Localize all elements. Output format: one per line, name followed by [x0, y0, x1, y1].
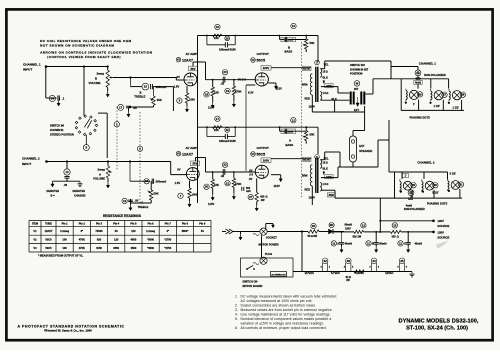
- capacitor C10 500mmf bass: [291, 23, 296, 28]
- svg-text:B: B: [95, 77, 97, 81]
- svg-text:120V: 120V: [437, 219, 444, 223]
- svg-text:470K: 470K: [79, 237, 85, 241]
- capacitor C12 .05 treble: [122, 198, 127, 203]
- svg-text:Pin 2: Pin 2: [79, 223, 86, 226]
- capacitor C25 4mfd non-polarized ch2: [408, 190, 414, 196]
- svg-text:2-5: 2-5: [249, 173, 253, 177]
- svg-text:55V: 55V: [193, 162, 198, 166]
- resistor R13 330 ohm: [392, 223, 397, 228]
- svg-text:5.: 5.: [235, 317, 238, 321]
- svg-text:BASS: BASS: [286, 143, 294, 147]
- svg-text:PHASING DOTS: PHASING DOTS: [427, 202, 448, 206]
- resistor R20 15K screen ch2: [204, 184, 209, 189]
- svg-text:6.: 6.: [235, 326, 238, 330]
- svg-text:470K: 470K: [235, 90, 241, 94]
- svg-text:*2750: *2750: [164, 237, 171, 241]
- svg-text:.02: .02: [221, 174, 225, 178]
- wire T2 secondary yel: [321, 159, 325, 161]
- wire ch2 rail verticals: [377, 140, 379, 167]
- wire ch1 feedback bus: [198, 35, 319, 37]
- svg-text:EXT: EXT: [354, 108, 359, 112]
- svg-text:*3600: *3600: [147, 237, 154, 241]
- resistor R3 1000 ohm cathode: [177, 98, 182, 103]
- svg-text:100: 100: [62, 246, 67, 250]
- resistor R19 470K grid: [233, 79, 235, 81]
- node channel2 input jack: [45, 160, 48, 163]
- svg-text:All controls at minimum, prop: All controls at minimum, proper output l…: [241, 326, 327, 330]
- svg-text:100: 100: [62, 237, 67, 241]
- svg-text:OUTPUT: OUTPUT: [257, 146, 270, 150]
- wire V1A plate up: [192, 62, 194, 66]
- svg-text:SHOWN IN INT: SHOWN IN INT: [350, 67, 369, 71]
- capacitor C17 .05: [118, 104, 124, 110]
- svg-text:1000: 1000: [189, 98, 195, 102]
- wire switch ext bottom: [334, 100, 336, 112]
- svg-text:A: A: [141, 201, 143, 205]
- wire mains bus: [241, 231, 260, 233]
- svg-text:3W: 3W: [313, 235, 317, 238]
- wire 50C5 ch2 plate to T2: [271, 158, 311, 160]
- svg-text:12AX7: 12AX7: [182, 152, 193, 156]
- wire screen b+: [245, 85, 247, 171]
- svg-text:Line voltage maintained at 117: Line voltage maintained at 117 volts for…: [241, 313, 331, 317]
- svg-text:TUBE: TUBE: [45, 223, 52, 226]
- svg-text:330: 330: [392, 235, 397, 238]
- svg-text:ST-100, SX-24 (Ch. 100): ST-100, SX-24 (Ch. 100): [406, 326, 468, 332]
- svg-text:1.5V: 1.5V: [174, 85, 180, 89]
- svg-text:15: 15: [144, 85, 148, 89]
- potentiometer R6 50K A TREBLE: [150, 181, 152, 190]
- switch S3 on-off: [247, 266, 253, 270]
- speaker SP1 1 inch: [417, 92, 422, 97]
- node channel1 input jack: [45, 65, 48, 68]
- svg-text:V2: V2: [251, 58, 255, 62]
- jack J1 EXT SPEAKER: [350, 136, 357, 162]
- svg-text:CHANNEL 2: CHANNEL 2: [22, 157, 40, 161]
- connector interconnect plug left: [229, 229, 233, 234]
- svg-text:CHANNEL 1: CHANNEL 1: [23, 63, 41, 67]
- svg-text:SOURCE: SOURCE: [437, 224, 449, 228]
- svg-text:19: 19: [226, 89, 230, 93]
- svg-text:PLUG: PLUG: [265, 252, 272, 256]
- svg-text:50C5: 50C5: [45, 246, 52, 250]
- wire T1 secondary yel: [321, 68, 325, 70]
- capacitor C15b 180mmf hum: [225, 36, 230, 41]
- svg-text:115V: 115V: [208, 202, 215, 206]
- svg-text:2W: 2W: [261, 199, 265, 202]
- socket motor power: [260, 228, 267, 235]
- wire ext speaker top: [352, 131, 354, 137]
- svg-text:80mfd: 80mfd: [379, 242, 387, 245]
- speaker SP5 3-1/2 inch: [433, 183, 438, 188]
- speaker SP2 1-1/2 inch: [442, 92, 447, 97]
- svg-text:V1: V1: [177, 152, 181, 156]
- capacitor C22 .02 coupling ch2: [222, 162, 227, 167]
- svg-text:NOT SHOWN ON SCHEMATIC DIA: NOT SHOWN ON SCHEMATIC DIAGRAM: [40, 44, 114, 48]
- svg-text:4500: 4500: [131, 237, 137, 241]
- svg-text:0V: 0V: [177, 168, 181, 172]
- resistor R17 22K feedback ch2: [215, 116, 220, 121]
- svg-text:SWITCH ON: SWITCH ON: [243, 279, 258, 283]
- wire ch2 speaker rail top: [389, 171, 395, 173]
- svg-text:BLUE: BLUE: [303, 158, 310, 161]
- svg-text:50C5: 50C5: [45, 237, 52, 241]
- svg-text:55V: 55V: [191, 67, 196, 71]
- svg-text:13: 13: [65, 170, 69, 174]
- svg-text:15K: 15K: [214, 183, 219, 187]
- resistor R7 1000 ohm cathode ch2: [178, 193, 183, 198]
- svg-text:1.2meg: 1.2meg: [146, 229, 155, 233]
- wire V1B plate to 50C5 grid: [206, 171, 256, 173]
- potentiometer R8 50K A BASS: [305, 131, 308, 141]
- svg-text:180mmf N150: 180mmf N150: [219, 139, 236, 143]
- svg-text:22K: 22K: [214, 128, 219, 132]
- svg-text:.05: .05: [133, 106, 137, 110]
- svg-text:SHOWN IN: SHOWN IN: [50, 128, 63, 132]
- svg-text:AF AMP: AF AMP: [186, 52, 197, 56]
- svg-text:V3: V3: [251, 152, 255, 156]
- wire T2 primary red b+: [311, 186, 313, 205]
- svg-text:11: 11: [367, 241, 370, 245]
- svg-text:DENOTES: DENOTES: [73, 189, 86, 193]
- svg-text:13: 13: [393, 223, 397, 227]
- wire switch to speakers: [366, 93, 374, 95]
- svg-text:50C5: 50C5: [257, 59, 266, 63]
- svg-text:0V: 0V: [249, 168, 252, 172]
- svg-text:TREBLE: TREBLE: [138, 205, 149, 209]
- svg-text:AC INTERLOCK: AC INTERLOCK: [271, 273, 286, 276]
- svg-text:POSITION: POSITION: [350, 72, 363, 76]
- svg-text:115V: 115V: [274, 184, 281, 188]
- label ac interlock: [271, 272, 287, 277]
- tube heater V2 pins: [322, 258, 328, 264]
- svg-text:120: 120: [114, 237, 119, 241]
- svg-text:DYNAMIC MODELS DS32-100,: DYNAMIC MODELS DS32-100,: [399, 319, 479, 325]
- legend denotes B-: [53, 180, 81, 182]
- svg-text:0*: 0*: [167, 229, 169, 233]
- ganged dashed line volume controls: [116, 107, 118, 170]
- svg-text:2meg: 2meg: [97, 72, 105, 76]
- wire socket hook: [265, 224, 267, 229]
- svg-text:VOLUME: VOLUME: [89, 81, 101, 85]
- svg-text:150V: 150V: [345, 227, 351, 230]
- svg-text:1000: 1000: [192, 192, 198, 196]
- svg-text:*2750: *2750: [164, 246, 171, 250]
- svg-text:32: 32: [323, 259, 327, 263]
- svg-text:20: 20: [205, 185, 209, 189]
- wire ch1 input drop: [45, 67, 47, 99]
- wire V1A plate to 50C5 grid: [206, 79, 256, 81]
- svg-text:0V: 0V: [177, 75, 181, 79]
- svg-text:180mmf N150: 180mmf N150: [219, 47, 236, 51]
- svg-text:34: 34: [372, 259, 376, 263]
- svg-text:DC voltage measurements taken: DC voltage measurements taken with vacuu…: [241, 294, 338, 298]
- svg-text:Ω: Ω: [326, 162, 328, 165]
- svg-text:3800*: 3800*: [182, 229, 189, 233]
- svg-text:620: 620: [97, 237, 102, 241]
- svg-text:4500: 4500: [131, 246, 137, 250]
- svg-text:Ω: Ω: [349, 277, 351, 279]
- svg-text:.02: .02: [221, 82, 225, 86]
- svg-text:DC COIL RESISTANCE VALUES: DC COIL RESISTANCE VALUES UNDER ONE OHM: [40, 39, 131, 43]
- svg-text:105V: 105V: [437, 230, 444, 234]
- svg-text:Ω: Ω: [326, 183, 328, 186]
- svg-text:TREBLE: TREBLE: [134, 95, 145, 99]
- switch S1 int-ext: [354, 81, 360, 87]
- tube heater V3 pins: [371, 258, 377, 264]
- svg-text:16: 16: [216, 25, 220, 29]
- svg-text:6.3V: 6.3V: [248, 91, 254, 95]
- svg-text:11: 11: [292, 118, 295, 122]
- capacitor C11 500mmf bass ch2: [291, 118, 296, 123]
- transformer T2 output ch2: [315, 155, 320, 160]
- svg-text:50K: 50K: [154, 192, 159, 196]
- svg-text:12: 12: [362, 223, 366, 227]
- wire 50C5 plate to T1: [271, 67, 311, 69]
- svg-text:12: 12: [123, 199, 127, 203]
- svg-text:©Howard W. Sams & Co., Inc. 19: ©Howard W. Sams & Co., Inc. 1960: [44, 329, 92, 333]
- svg-text:Ω: Ω: [326, 71, 328, 74]
- wire speaker return to b+: [379, 198, 381, 232]
- svg-text:A: A: [289, 139, 291, 143]
- svg-text:Pin 6: Pin 6: [148, 223, 155, 226]
- svg-text:Socket connections are shown a: Socket connections are shown as bottom v…: [241, 303, 317, 307]
- svg-text:Pin 7: Pin 7: [165, 223, 172, 226]
- svg-text:18: 18: [205, 92, 209, 96]
- svg-text:RESISTANCE READINGS: RESISTANCE READINGS: [103, 214, 141, 218]
- svg-text:70000: 70000: [95, 229, 103, 233]
- svg-text:2meg: 2meg: [98, 167, 106, 171]
- svg-text:12AX7: 12AX7: [182, 58, 193, 62]
- svg-text:V3: V3: [33, 246, 37, 250]
- svg-text:W: W: [356, 81, 359, 85]
- resistor R30 55 ohm 3W: [311, 223, 316, 228]
- svg-text:Ω: Ω: [266, 196, 268, 199]
- wire ch2 feedback bus: [198, 126, 319, 128]
- svg-text:600: 600: [260, 196, 265, 199]
- tube heater V1 pins: [346, 258, 352, 264]
- svg-text:* MEASURED FROM OUTPUT O: * MEASURED FROM OUTPUT OF V1.: [38, 253, 84, 257]
- svg-text:50K: 50K: [310, 133, 315, 137]
- svg-text:4.: 4.: [235, 313, 238, 317]
- potentiometer R2 50K B TREBLE: [153, 87, 155, 96]
- wire ch2 input rail: [47, 161, 171, 163]
- svg-text:STEREO POSITION: STEREO POSITION: [50, 133, 74, 137]
- svg-text:100V: 100V: [263, 159, 270, 163]
- svg-text:INPUT: INPUT: [23, 68, 32, 72]
- diode M1 rectifier: [329, 223, 334, 228]
- svg-text:14: 14: [51, 97, 55, 101]
- svg-text:V1: V1: [177, 58, 181, 62]
- wire T1 secondary grn to switch: [321, 86, 338, 88]
- wire ch2 speaker bottoms: [335, 197, 395, 199]
- wire ch1 speaker bottoms: [401, 109, 464, 111]
- svg-text:Nominal tolerance of component: Nominal tolerance of component values ma…: [241, 317, 332, 321]
- capacitor C15 200mmf: [142, 83, 149, 90]
- svg-text:.05: .05: [64, 183, 68, 187]
- svg-text:22K: 22K: [214, 36, 219, 40]
- svg-text:1 1/2': 1 1/2': [453, 106, 460, 110]
- svg-text:20: 20: [223, 70, 227, 74]
- svg-text:Pin 5: Pin 5: [130, 223, 137, 226]
- svg-text:DENOTES: DENOTES: [47, 189, 60, 193]
- svg-text:Measured values are from socke: Measured values are from socket pin to c…: [241, 308, 333, 312]
- svg-text:820 2W: 820 2W: [353, 235, 362, 238]
- legend denotes chassis: [79, 181, 81, 184]
- svg-text:1 1/2': 1 1/2': [434, 104, 441, 108]
- svg-text:VOLUME: VOLUME: [93, 177, 105, 181]
- svg-text:Ω: Ω: [397, 235, 399, 238]
- svg-text:470K: 470K: [79, 246, 85, 250]
- svg-text:MOTOR BOARD: MOTOR BOARD: [243, 284, 263, 288]
- wire socket to plug: [261, 235, 263, 257]
- svg-text:BLK: BLK: [323, 76, 328, 80]
- svg-text:33: 33: [347, 259, 351, 263]
- ganged dashed line treble controls: [139, 112, 141, 205]
- svg-text:AC voltages measured at 1000 o: AC voltages measured at 1000 ohms per vo…: [241, 299, 313, 303]
- wire heater string: [293, 271, 412, 273]
- svg-text:0V 2-5: 0V 2-5: [238, 78, 246, 82]
- svg-text:1.: 1.: [235, 294, 238, 298]
- wire b+ rails: [380, 220, 433, 222]
- svg-text:50K: 50K: [157, 98, 162, 102]
- svg-text:RED: RED: [329, 194, 334, 197]
- svg-text:15K: 15K: [214, 91, 219, 95]
- svg-text:NON-POLARIZED: NON-POLARIZED: [404, 208, 425, 211]
- wire ch1 speaker rail top: [400, 79, 402, 111]
- capacitor C14 .1: [46, 97, 57, 99]
- svg-text:Ω: Ω: [326, 92, 328, 95]
- svg-text:SWITCH NO: SWITCH NO: [350, 63, 365, 67]
- svg-text:B =: B =: [51, 193, 56, 197]
- wire 50C5 ch2 screen: [271, 174, 281, 176]
- svg-text:4mfd: 4mfd: [406, 203, 413, 207]
- capacitor C10b 200mmf: [144, 179, 149, 184]
- b- return arrow: [233, 231, 241, 233]
- rotary switch S2 stereo-mono: [75, 115, 98, 136]
- svg-text:0*: 0*: [81, 229, 83, 233]
- svg-text:RED: RED: [305, 97, 311, 101]
- svg-text:10: 10: [292, 24, 296, 28]
- svg-text:CHASSIS: CHASSIS: [74, 193, 86, 197]
- svg-text:1.2meg: 1.2meg: [60, 229, 69, 233]
- wire T2 secondary routing: [321, 177, 338, 179]
- svg-text:OUTPUT: OUTPUT: [257, 52, 270, 56]
- svg-text:*3600: *3600: [147, 246, 154, 250]
- resistor R21 470K grid ch2: [233, 171, 235, 173]
- resistor R16 22K feedback: [215, 24, 220, 29]
- svg-text:50K: 50K: [310, 41, 315, 45]
- svg-text:BLK: BLK: [323, 167, 328, 171]
- resistor R27 600 ohm 2W: [248, 194, 253, 199]
- svg-text:470K: 470K: [235, 182, 241, 186]
- wire volume wiper to grid: [113, 77, 176, 79]
- wire 50C5 screen: [268, 82, 276, 84]
- svg-text:.05: .05: [135, 199, 139, 203]
- svg-text:35: 35: [400, 259, 404, 263]
- svg-text:27: 27: [249, 195, 253, 199]
- svg-text:NON-POLARIZED: NON-POLARIZED: [424, 73, 446, 77]
- wire rotary to treble bus: [98, 112, 107, 114]
- capacitor C11C 40mfd: [407, 232, 409, 243]
- svg-text:.5V: .5V: [249, 177, 253, 181]
- svg-text:RED: RED: [305, 188, 311, 192]
- svg-text:AF AMP: AF AMP: [186, 146, 197, 150]
- svg-text:17: 17: [119, 105, 123, 109]
- table resistance readings: [29, 221, 211, 253]
- svg-text:11: 11: [399, 241, 402, 245]
- capacitor C24 4mfd non-polarized: [415, 70, 421, 76]
- svg-text:100V: 100V: [263, 66, 270, 70]
- speaker SP6 3-1/2 inch: [458, 182, 463, 187]
- svg-text:Pin 4: Pin 4: [113, 223, 120, 226]
- svg-text:80mfd: 80mfd: [345, 224, 353, 227]
- svg-text:40mfd: 40mfd: [345, 242, 353, 245]
- ground heater end: [411, 272, 413, 275]
- svg-text:SOURCE: SOURCE: [437, 235, 449, 239]
- svg-text:ITEM: ITEM: [32, 223, 38, 226]
- svg-text:Pin 8: Pin 8: [182, 223, 189, 226]
- svg-text:40mfd: 40mfd: [415, 242, 423, 245]
- svg-text:Pin 1: Pin 1: [62, 223, 69, 226]
- resistor R31 82 ohm 2W: [354, 270, 364, 273]
- svg-text:3 1/2': 3 1/2': [450, 171, 457, 175]
- svg-text:BLUE: BLUE: [303, 67, 310, 70]
- capacitor C20 .02 coupling: [222, 70, 227, 75]
- scan smudge: [436, 241, 449, 248]
- svg-text:1.5V: 1.5V: [175, 181, 181, 185]
- svg-text:21: 21: [226, 181, 230, 185]
- capacitor C11A 40mfd: [331, 241, 336, 246]
- capacitor C16b 180mmf ch2: [225, 128, 230, 133]
- rotary switch ref: [85, 135, 87, 144]
- svg-text:Pin 3: Pin 3: [96, 223, 103, 226]
- speaker SP4 1 inch: [411, 183, 416, 188]
- box on-off switch: [241, 258, 294, 277]
- svg-text:CHANNEL 2: CHANNEL 2: [417, 161, 434, 165]
- potentiometer R4 50K B BASS: [305, 39, 308, 49]
- svg-text:mfd: mfd: [246, 190, 251, 193]
- svg-text:variation of ±15% in voltage: variation of ±15% in voltage and resista…: [241, 322, 325, 326]
- wire ch1 input to volume: [46, 66, 108, 68]
- svg-text:8.2VAC: 8.2VAC: [355, 271, 364, 275]
- svg-text:3 1/2': 3 1/2': [432, 191, 439, 195]
- potentiometer R5 2meg A VOLUME: [107, 160, 109, 162]
- svg-text:12AX7: 12AX7: [45, 229, 53, 233]
- svg-text:12VAC: 12VAC: [385, 271, 393, 275]
- svg-text:SPEAKER: SPEAKER: [359, 149, 372, 153]
- svg-text:INT: INT: [354, 87, 359, 91]
- wire treble cap to right leg: [153, 86, 174, 88]
- svg-text:BRN: BRN: [302, 84, 308, 87]
- wire b+ drop to T2: [317, 127, 319, 154]
- svg-text:50C5: 50C5: [257, 153, 266, 157]
- capacitor C11B 80mfd: [375, 232, 377, 243]
- resistor R18 15K screen: [204, 92, 209, 97]
- transformer T1 output ch1: [315, 60, 320, 65]
- svg-text:ARROWS ON CONTROLS INDICATE: ARROWS ON CONTROLS INDICATE CLOCKWISE RO…: [40, 51, 153, 55]
- svg-text:200mmf: 200mmf: [156, 179, 167, 183]
- svg-text:M1: M1: [330, 223, 334, 227]
- wire switch feed: [83, 67, 85, 116]
- svg-text:120: 120: [131, 229, 136, 233]
- svg-text:117VAC: 117VAC: [305, 271, 315, 275]
- svg-text:V1: V1: [33, 229, 37, 233]
- svg-text:SWITCH IM: SWITCH IM: [50, 124, 64, 128]
- svg-text:V2: V2: [33, 237, 37, 241]
- svg-text:30: 30: [312, 224, 316, 228]
- svg-text:3.: 3.: [235, 308, 238, 312]
